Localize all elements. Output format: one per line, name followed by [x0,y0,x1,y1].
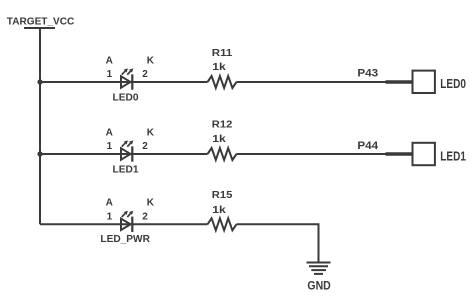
junction node row 2 [37,151,42,156]
svg-text:1: 1 [107,211,113,222]
svg-text:R11: R11 [212,48,233,59]
svg-text:K: K [147,127,155,138]
wire row 2: R12 to port P44 [237,153,387,155]
svg-text:A: A [106,197,113,208]
port stub row 1 [386,80,413,83]
wire row 2: rail to resistor R12 [40,153,208,155]
svg-text:K: K [147,197,155,208]
LED LED0 [121,68,133,89]
wire row 3: rail corner to resistor R15 [40,223,208,225]
svg-text:R15: R15 [212,190,233,201]
port stub row 2 [386,152,413,155]
svg-text:2: 2 [142,211,148,222]
svg-text:LED1: LED1 [440,149,466,163]
svg-text:R12: R12 [212,120,233,131]
port box LED0 [413,71,435,93]
svg-text:2: 2 [142,69,148,80]
LED LED_PWR [121,211,133,232]
svg-text:1k: 1k [212,205,226,216]
resistor R15 [208,218,237,230]
svg-text:1k: 1k [212,62,226,73]
wire row 1: rail to resistor R11 [40,81,208,83]
svg-text:1: 1 [107,141,113,152]
wire: vertical rail from TARGET_VCC to row 3 [39,28,41,224]
ground symbol GND [307,263,331,274]
svg-text:P44: P44 [357,140,379,152]
svg-text:A: A [106,55,113,66]
svg-text:LED0: LED0 [113,92,139,103]
svg-text:P43: P43 [357,68,378,80]
svg-text:1: 1 [107,69,113,80]
svg-text:K: K [147,55,155,66]
svg-text:GND: GND [307,281,330,293]
resistor R12 [208,148,237,160]
svg-text:LED0: LED0 [440,77,466,91]
port box LED1 [413,143,435,165]
resistor R11 [208,76,237,88]
wire row 3: R15 to ground corner [237,224,319,262]
svg-text:LED1: LED1 [113,164,139,175]
svg-text:2: 2 [142,141,148,152]
wire row 1: R11 to port P43 [237,81,387,83]
svg-text:TARGET_VCC: TARGET_VCC [7,17,75,28]
svg-text:A: A [106,127,113,138]
svg-text:1k: 1k [212,134,226,145]
power symbol TARGET_VCC [7,17,75,28]
junction node row 1 [37,79,42,84]
LED LED1 [121,140,133,161]
svg-text:LED_PWR: LED_PWR [100,234,150,245]
